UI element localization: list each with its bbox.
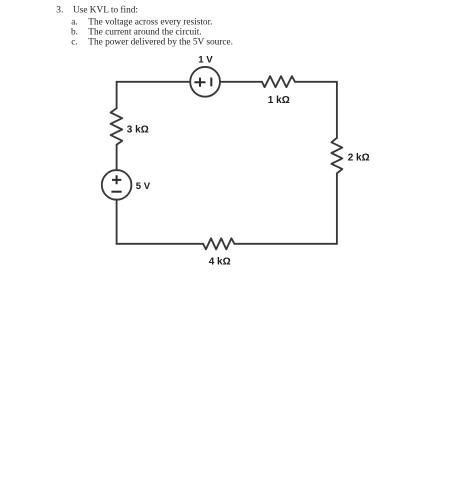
svg-text:b.: b. bbox=[71, 28, 78, 38]
V1 plus sign bbox=[194, 78, 205, 87]
wire bottom: 4k resistor to right corner bbox=[234, 243, 337, 245]
voltage source V2 5V circle (left) bbox=[102, 170, 132, 200]
svg-text:4 kΩ: 4 kΩ bbox=[209, 257, 231, 268]
svg-text:3.: 3. bbox=[56, 6, 63, 16]
problem item b bbox=[71, 28, 202, 38]
svg-text:The power delivered by the 5V: The power delivered by the 5V source. bbox=[88, 37, 233, 47]
svg-text:3 kΩ: 3 kΩ bbox=[127, 124, 149, 135]
svg-text:1 V: 1 V bbox=[198, 55, 213, 66]
problem item a bbox=[71, 18, 212, 28]
V1 minus bar (vertical) bbox=[210, 78, 212, 87]
wire left side: 3k resistor to 5V source bbox=[116, 145, 118, 170]
svg-text:The current around the circuit: The current around the circuit. bbox=[88, 28, 201, 38]
voltage source V1 1V circle (top) bbox=[190, 67, 220, 97]
problem statement line 1 bbox=[56, 5, 138, 16]
wire between 1V source and 1k resistor bbox=[220, 81, 262, 83]
svg-text:a.: a. bbox=[71, 18, 77, 28]
svg-text:Use KVL to find:: Use KVL to find: bbox=[73, 5, 138, 16]
svg-text:2 kΩ: 2 kΩ bbox=[348, 153, 370, 164]
svg-text:c.: c. bbox=[71, 37, 77, 47]
svg-text:The voltage across every resis: The voltage across every resistor. bbox=[88, 18, 212, 28]
svg-text:1 kΩ: 1 kΩ bbox=[268, 95, 290, 106]
wire right side: corner to 2k resistor bbox=[336, 82, 338, 138]
wire bottom: left corner to 4k resistor bbox=[117, 243, 204, 245]
resistor 3 kOhm (left) bbox=[111, 108, 123, 145]
problem item c bbox=[71, 37, 233, 47]
resistor 2 kOhm (right) bbox=[331, 138, 342, 173]
wire right side: 2k resistor to bottom-right corner bbox=[336, 173, 338, 244]
wire left side: 5V source to bottom-left corner bbox=[116, 200, 118, 244]
svg-text:5 V: 5 V bbox=[136, 181, 151, 192]
resistor 1 kOhm (top) bbox=[262, 76, 295, 87]
V2 plus sign bbox=[112, 175, 121, 184]
wire 1k resistor to top-right corner bbox=[295, 81, 337, 83]
V2 minus sign bbox=[111, 191, 121, 193]
wire left side: corner to 3k resistor bbox=[116, 82, 118, 108]
resistor 4 kOhm (bottom) bbox=[203, 238, 234, 249]
wire top-left horizontal segment bbox=[117, 81, 191, 83]
